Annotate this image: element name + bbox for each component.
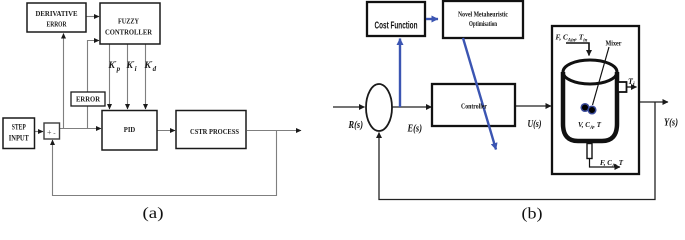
svg-text:STEP: STEP bbox=[12, 123, 26, 132]
svg-text:R(s): R(s) bbox=[348, 120, 363, 131]
svg-text:Novel Metaheuristic: Novel Metaheuristic bbox=[458, 10, 509, 19]
svg-text:Cost Function: Cost Function bbox=[375, 21, 418, 32]
svg-text:Mixer: Mixer bbox=[606, 39, 623, 48]
svg-text:+: + bbox=[47, 128, 52, 137]
svg-text:PID: PID bbox=[124, 125, 136, 134]
svg-text:CSTR PROCESS: CSTR PROCESS bbox=[190, 127, 239, 136]
svg-text:ERROR: ERROR bbox=[76, 95, 100, 104]
svg-text:E(s): E(s) bbox=[407, 124, 422, 135]
svg-text:U(s): U(s) bbox=[528, 119, 542, 130]
svg-text:FUZZY: FUZZY bbox=[118, 17, 139, 26]
svg-text:Controller: Controller bbox=[461, 103, 487, 111]
svg-text:(b): (b) bbox=[522, 206, 543, 223]
svg-text:DERIVATIVE: DERIVATIVE bbox=[36, 9, 78, 18]
svg-text:Y(s): Y(s) bbox=[664, 118, 678, 129]
svg-text:CONTROLLER: CONTROLLER bbox=[105, 28, 152, 37]
svg-text:INPUT: INPUT bbox=[9, 134, 30, 143]
svg-text:Optimisation: Optimisation bbox=[469, 19, 497, 28]
svg-text:ERROR: ERROR bbox=[47, 20, 67, 29]
svg-text:(a): (a) bbox=[143, 205, 164, 222]
